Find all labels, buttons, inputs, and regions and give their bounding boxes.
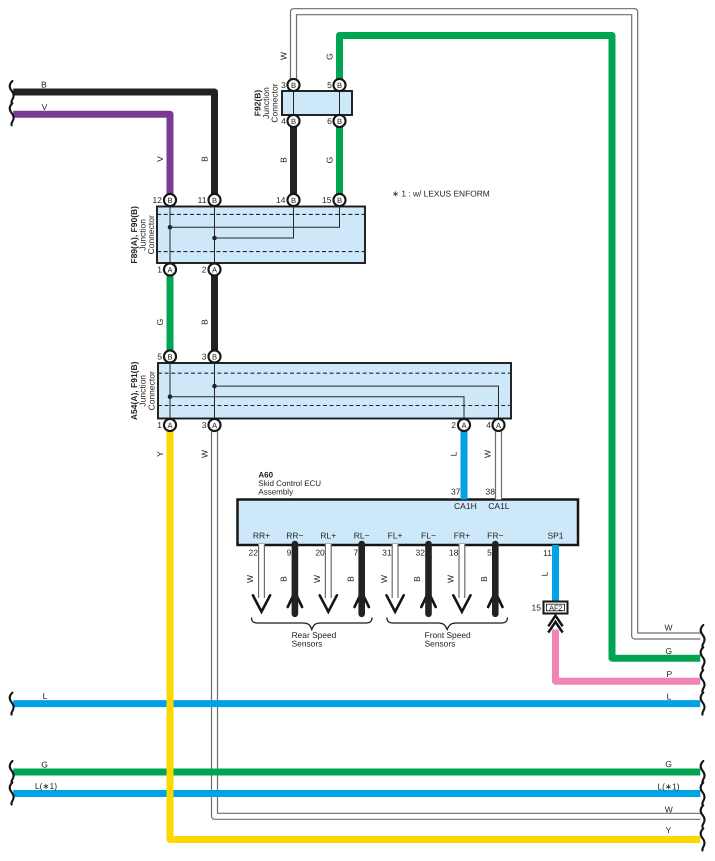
svg-text:7: 7 (353, 548, 358, 558)
svg-text:18: 18 (449, 548, 459, 558)
wire B speed sensor column 4 (358, 544, 365, 614)
svg-text:B: B (278, 157, 288, 163)
svg-text:L: L (449, 451, 459, 456)
svg-text:12: 12 (153, 195, 163, 205)
svg-text:Connector: Connector (146, 371, 156, 410)
svg-text:2: 2 (451, 420, 456, 430)
svg-text:L: L (667, 692, 672, 702)
svg-text:B: B (167, 196, 172, 205)
svg-text:B: B (212, 352, 217, 361)
break symbol wire W right (701, 625, 705, 647)
svg-text:11: 11 (198, 195, 207, 205)
svg-text:B: B (479, 576, 489, 582)
svg-text:Connector: Connector (146, 215, 156, 254)
wire L from ECU SP1 pin 11 to AF2 (552, 545, 559, 601)
svg-text:4: 4 (281, 116, 286, 126)
arrowhead speed sensor column 2 (288, 592, 302, 607)
svg-text:FR+: FR+ (454, 531, 470, 541)
wire V from left edge to F89 pin 12 (13, 114, 170, 197)
svg-text:14: 14 (276, 195, 286, 205)
break symbol wire Y right (701, 829, 705, 851)
wire B from F89 pin 2A to A54 pin 3B (211, 267, 218, 359)
svg-text:SP1: SP1 (547, 531, 563, 541)
svg-text:15: 15 (322, 195, 332, 205)
F89 pin 15 (333, 194, 345, 206)
F92 pin 5 (333, 79, 345, 91)
svg-text:B: B (212, 196, 217, 205)
svg-text:9: 9 (287, 548, 292, 558)
svg-text:FR−: FR− (487, 531, 503, 541)
arrowhead speed sensor column 3 (320, 595, 337, 611)
shield symbol below AF2 (548, 616, 562, 633)
svg-text:Sensors: Sensors (292, 638, 323, 648)
svg-text:B: B (412, 576, 422, 582)
junction connector F92(B) box (282, 91, 352, 115)
wire W from F92 pin 3 over top and down right side to right edge (294, 12, 701, 636)
svg-text:B: B (337, 196, 342, 205)
svg-text:6: 6 (327, 116, 332, 126)
break symbol wire L left (10, 693, 14, 715)
F89 junction dots (168, 225, 217, 240)
svg-text:1: 1 (157, 420, 162, 430)
wire L from A54 pin 2A to ECU pin 37 (461, 424, 468, 500)
svg-text:B: B (345, 576, 355, 582)
svg-text:B: B (337, 117, 342, 126)
A54 pin 3A (208, 419, 220, 431)
wire G from F89 pin 1A to A54 pin 5B (167, 267, 174, 359)
wire G from F92 pin 5 over top and down right side to right edge (340, 36, 701, 659)
junction connector F89(A),F90(B) box (157, 207, 365, 264)
svg-text:1: 1 (157, 265, 162, 275)
svg-text:G: G (324, 157, 334, 164)
svg-text:31: 31 (382, 548, 392, 558)
F92(B) internal pin lines (294, 91, 340, 115)
wire L long horizontal (13, 700, 700, 707)
svg-text:15: 15 (532, 603, 542, 613)
svg-text:B: B (279, 576, 289, 582)
wire W speed sensor column 5 (392, 544, 399, 598)
svg-text:37: 37 (451, 487, 461, 497)
wire G lower horizontal (13, 769, 700, 776)
svg-text:RL−: RL− (354, 531, 370, 541)
svg-text:G: G (324, 53, 334, 60)
A54 pin 4 (492, 419, 504, 431)
svg-text:FL+: FL+ (388, 531, 403, 541)
svg-text:W: W (199, 450, 209, 458)
A60 skid control ECU box (238, 500, 579, 546)
svg-text:W: W (664, 623, 672, 633)
F92 pin 6 (333, 115, 345, 127)
svg-text:5: 5 (487, 548, 492, 558)
junction connector A54(A),F91(B) box (158, 363, 511, 419)
wire G from F92 pin 6 to F89 pin 15 (336, 118, 343, 202)
arrowhead speed sensor column 1 (253, 595, 270, 611)
svg-text:RR+: RR+ (253, 531, 270, 541)
arrowhead speed sensor column 6 (421, 592, 435, 607)
svg-text:B: B (291, 117, 296, 126)
svg-text:B: B (291, 81, 296, 90)
svg-text:5: 5 (327, 80, 332, 90)
svg-text:11: 11 (543, 548, 552, 558)
break symbol wire L(*1) right (701, 783, 705, 805)
svg-text:38: 38 (486, 487, 496, 497)
svg-text:3: 3 (281, 80, 286, 90)
svg-text:B: B (199, 156, 209, 162)
break symbol wire G right (701, 647, 705, 669)
wire W speed sensor column 7 (458, 544, 465, 598)
svg-text:AF2: AF2 (549, 603, 562, 612)
svg-text:G: G (665, 759, 672, 769)
wire B speed sensor column 8 (492, 544, 499, 614)
svg-text:W: W (245, 575, 255, 583)
svg-text:L(∗1): L(∗1) (35, 781, 57, 791)
svg-text:G: G (665, 646, 672, 656)
wire W speed sensor column 1 (258, 544, 265, 598)
F89 pin 12 (164, 194, 176, 206)
svg-text:L: L (540, 571, 550, 576)
connector AF2 box (544, 602, 568, 614)
svg-text:CA1L: CA1L (488, 501, 510, 511)
A54 pin 2 (458, 419, 470, 431)
wire W from A54 pin 3A down and right to bottom edge (215, 424, 701, 816)
svg-text:B: B (291, 196, 296, 205)
svg-text:RL+: RL+ (320, 531, 336, 541)
F89 pin 11 (208, 194, 220, 206)
svg-text:∗ 1 : w/ LEXUS ENFORM: ∗ 1 : w/ LEXUS ENFORM (392, 188, 490, 198)
svg-text:B: B (337, 81, 342, 90)
wire B speed sensor column 6 (425, 544, 432, 614)
svg-text:B: B (167, 352, 172, 361)
svg-text:4: 4 (486, 420, 491, 430)
break symbol wire L(*1) left (10, 783, 14, 805)
svg-text:P: P (666, 669, 672, 679)
wire B from F92 pin 4 to F89 pin 14 (290, 118, 297, 202)
svg-text:W: W (312, 575, 322, 583)
svg-text:3: 3 (202, 420, 207, 430)
svg-text:G: G (155, 319, 165, 326)
F89 pin 1 (164, 263, 176, 275)
svg-text:5: 5 (157, 352, 162, 362)
wire W from A54 pin 4A to ECU pin 38 (495, 424, 502, 500)
arrowhead speed sensor column 5 (387, 595, 404, 611)
break symbol wire B left (10, 81, 14, 103)
arrowhead speed sensor column 4 (355, 592, 369, 607)
svg-text:W: W (483, 450, 493, 458)
brace front speed sensors (387, 618, 508, 630)
brace rear speed sensors (252, 618, 373, 630)
svg-text:32: 32 (416, 548, 426, 558)
wire L(*1) horizontal (13, 790, 700, 797)
break symbol wire P right (701, 670, 705, 692)
svg-text:20: 20 (315, 548, 325, 558)
svg-text:22: 22 (249, 548, 259, 558)
svg-text:W: W (379, 575, 389, 583)
svg-text:Connector: Connector (270, 83, 280, 122)
svg-text:W: W (278, 52, 288, 60)
F89 pin 14 (287, 194, 299, 206)
svg-text:CA1H: CA1H (454, 501, 477, 511)
F89 dashed bus lines (157, 214, 365, 251)
svg-text:B: B (199, 319, 209, 325)
A54 internal wiring (170, 363, 499, 419)
A54 junction dots (168, 384, 217, 399)
svg-text:V: V (42, 102, 48, 112)
svg-text:2: 2 (202, 265, 207, 275)
break symbol wire W right (701, 805, 705, 827)
break symbol wire G left (10, 761, 14, 783)
svg-text:V: V (155, 156, 165, 162)
wire B from left edge to F89 pin 11 (13, 92, 214, 197)
svg-text:FL−: FL− (421, 531, 436, 541)
svg-text:Y: Y (155, 451, 165, 457)
break symbol wire V left (10, 103, 14, 125)
break symbol wire L right (701, 693, 705, 715)
break symbol wire G right (701, 761, 705, 783)
svg-text:Assembly: Assembly (258, 488, 293, 497)
svg-text:Y: Y (666, 825, 672, 835)
wire P from AF2 shield to right edge (556, 630, 701, 682)
svg-text:3: 3 (202, 352, 207, 362)
svg-text:B: B (41, 80, 47, 90)
A54 pin 1 (164, 419, 176, 431)
F92 pin 3 (287, 79, 299, 91)
A54 pin 3B (208, 350, 220, 362)
svg-text:W: W (665, 804, 673, 814)
F89 internal wiring (170, 207, 340, 264)
svg-text:L: L (43, 691, 48, 701)
wire Y from A54 pin 1A down and right to right edge (170, 424, 700, 840)
A54 pin 5 (164, 350, 176, 362)
svg-text:Sensors: Sensors (425, 638, 456, 648)
wire W speed sensor column 3 (325, 544, 332, 598)
arrowhead speed sensor column 7 (453, 595, 470, 611)
wire B speed sensor column 2 (292, 544, 299, 614)
svg-text:W: W (446, 575, 456, 583)
A54 dashed bus lines (158, 373, 511, 405)
svg-text:RR−: RR− (286, 531, 303, 541)
svg-text:G: G (41, 760, 48, 770)
F92 pin 4 (287, 115, 299, 127)
F89 pin 2 (208, 263, 220, 275)
arrowhead speed sensor column 8 (488, 592, 502, 607)
svg-text:L(∗1): L(∗1) (657, 782, 679, 792)
